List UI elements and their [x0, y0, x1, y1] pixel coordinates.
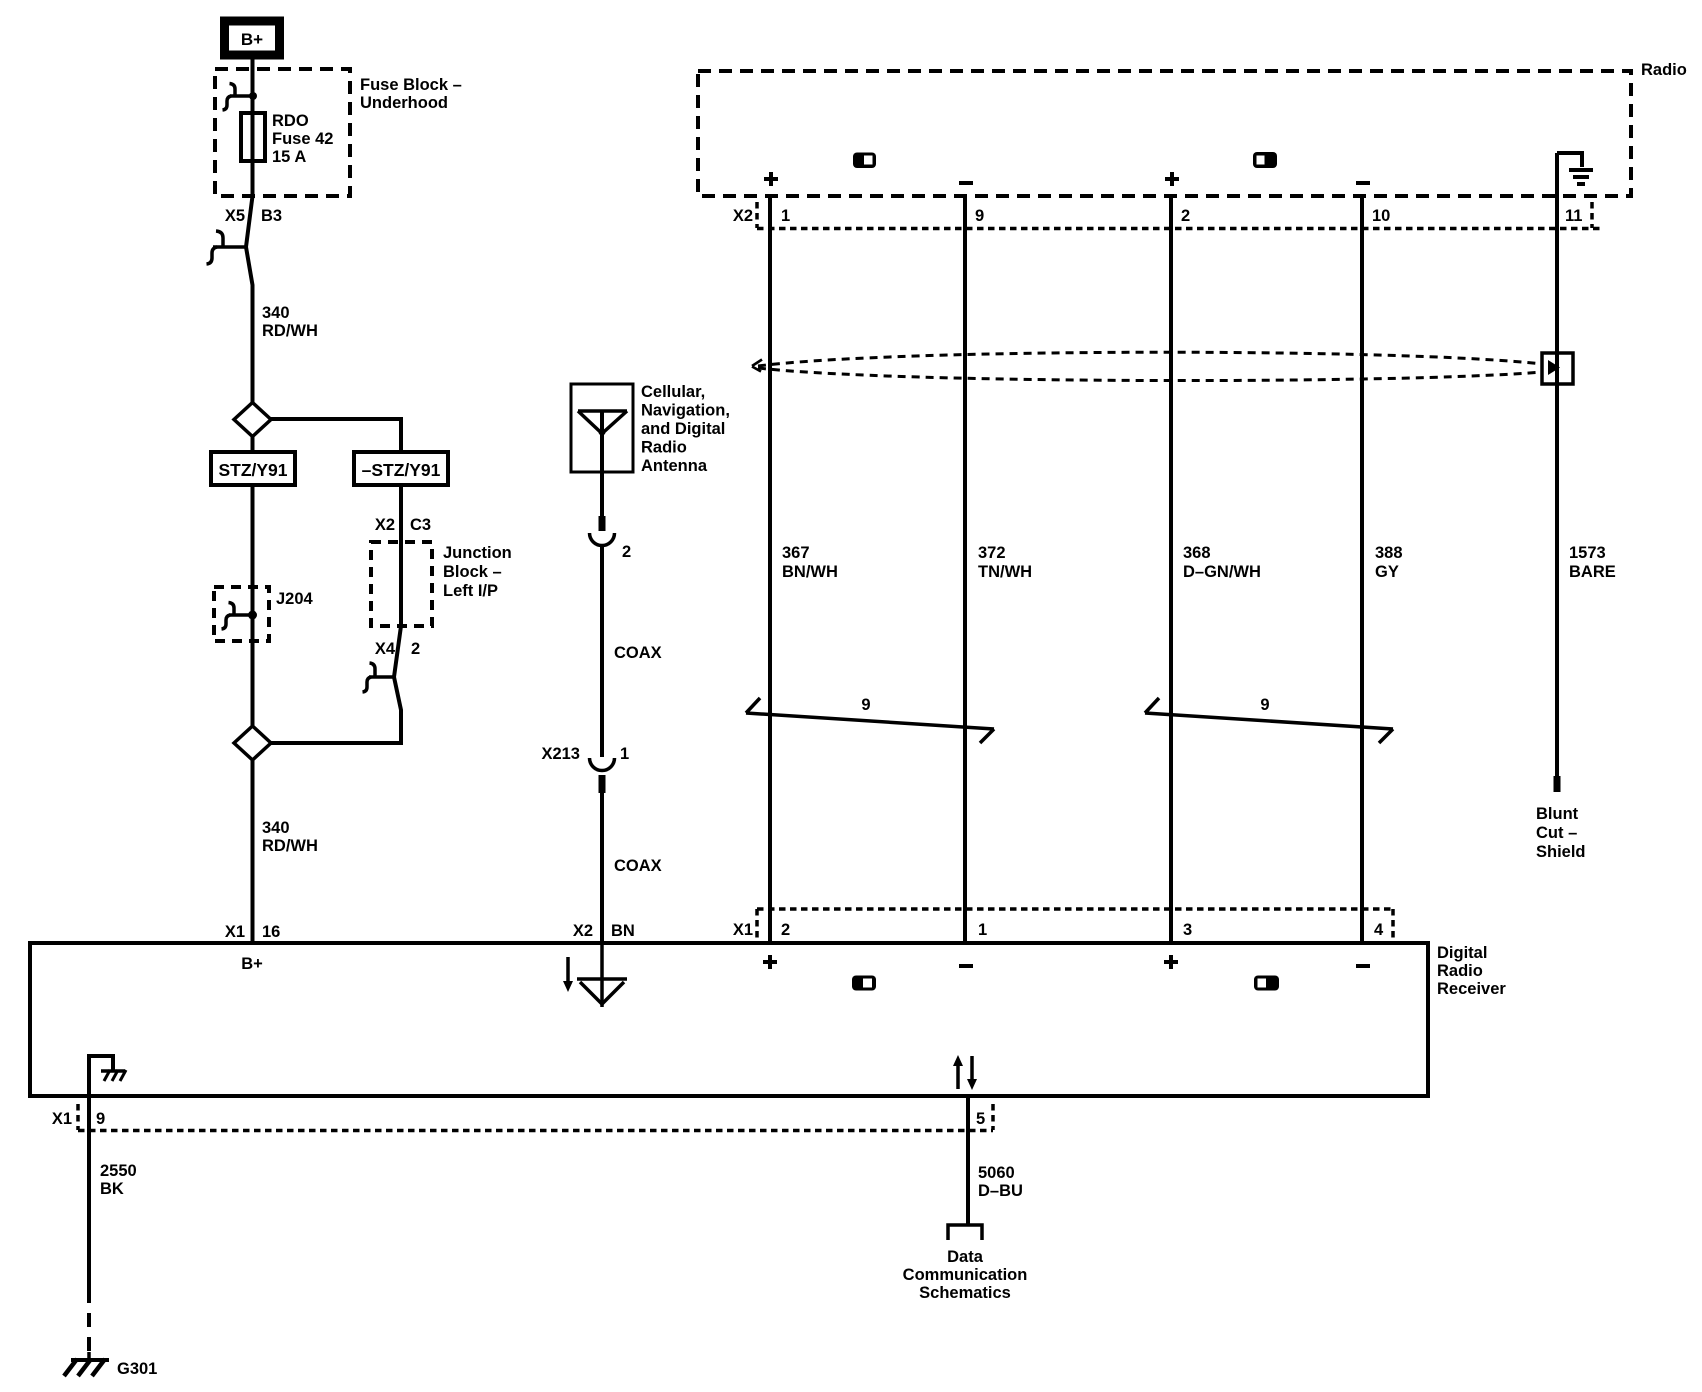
svg-text:2: 2: [781, 921, 790, 939]
svg-text:Radio: Radio: [641, 439, 687, 457]
svg-text:and Digital: and Digital: [641, 420, 725, 438]
svg-text:Blunt: Blunt: [1536, 805, 1579, 823]
svg-text:1: 1: [978, 921, 987, 939]
svg-text:G301: G301: [117, 1360, 157, 1378]
svg-text:B3: B3: [261, 207, 282, 225]
svg-text:D–GN/WH: D–GN/WH: [1183, 563, 1261, 581]
svg-text:2: 2: [1181, 207, 1190, 225]
svg-text:Shield: Shield: [1536, 843, 1586, 861]
svg-text:Block –: Block –: [443, 563, 502, 581]
svg-text:X2: X2: [733, 207, 753, 225]
svg-text:GY: GY: [1375, 563, 1399, 581]
svg-text:2550: 2550: [100, 1162, 137, 1180]
svg-text:Junction: Junction: [443, 544, 512, 562]
svg-text:BN: BN: [611, 922, 635, 940]
svg-text:10: 10: [1372, 207, 1390, 225]
svg-text:1573: 1573: [1569, 544, 1606, 562]
svg-text:Digital: Digital: [1437, 944, 1487, 962]
svg-text:D–BU: D–BU: [978, 1182, 1023, 1200]
svg-text:J204: J204: [276, 590, 314, 608]
svg-text:X5: X5: [225, 207, 245, 225]
svg-text:Left I/P: Left I/P: [443, 582, 498, 600]
svg-text:Data: Data: [947, 1248, 984, 1266]
svg-text:1: 1: [620, 745, 629, 763]
svg-text:C3: C3: [410, 516, 431, 534]
svg-text:2: 2: [622, 543, 631, 561]
svg-text:BK: BK: [100, 1180, 124, 1198]
svg-text:9: 9: [975, 207, 984, 225]
svg-text:9: 9: [861, 696, 870, 714]
svg-text:Communication: Communication: [903, 1266, 1028, 1284]
svg-text:X1: X1: [52, 1110, 72, 1128]
svg-text:11: 11: [1565, 207, 1582, 225]
svg-text:STZ/Y91: STZ/Y91: [218, 460, 287, 480]
svg-text:Fuse 42: Fuse 42: [272, 130, 333, 148]
svg-text:X2: X2: [375, 516, 395, 534]
svg-text:Receiver: Receiver: [1437, 980, 1506, 998]
svg-text:Fuse Block –: Fuse Block –: [360, 76, 462, 94]
svg-text:16: 16: [262, 923, 280, 941]
svg-text:COAX: COAX: [614, 644, 662, 662]
svg-text:B+: B+: [241, 30, 263, 49]
svg-text:Underhood: Underhood: [360, 94, 448, 112]
svg-text:340: 340: [262, 819, 290, 837]
svg-text:X4: X4: [375, 640, 396, 658]
svg-text:BN/WH: BN/WH: [782, 563, 838, 581]
svg-text:372: 372: [978, 544, 1006, 562]
svg-text:5060: 5060: [978, 1164, 1015, 1182]
svg-text:5: 5: [976, 1110, 985, 1128]
svg-text:9: 9: [96, 1110, 105, 1128]
svg-text:B+: B+: [241, 955, 263, 973]
svg-text:Radio: Radio: [1437, 962, 1483, 980]
svg-text:1: 1: [781, 207, 790, 225]
svg-text:9: 9: [1260, 696, 1269, 714]
svg-text:Schematics: Schematics: [919, 1284, 1011, 1302]
svg-text:X1: X1: [225, 923, 245, 941]
svg-text:367: 367: [782, 544, 810, 562]
svg-text:3: 3: [1183, 921, 1192, 939]
svg-text:4: 4: [1374, 921, 1384, 939]
svg-text:15 A: 15 A: [272, 148, 306, 166]
svg-text:COAX: COAX: [614, 857, 662, 875]
svg-text:Radio: Radio: [1641, 61, 1687, 79]
svg-text:Cut –: Cut –: [1536, 824, 1577, 842]
svg-text:Navigation,: Navigation,: [641, 402, 730, 420]
svg-text:388: 388: [1375, 544, 1403, 562]
svg-text:RD/WH: RD/WH: [262, 837, 318, 855]
svg-text:RD/WH: RD/WH: [262, 322, 318, 340]
svg-text:RDO: RDO: [272, 112, 309, 130]
svg-text:2: 2: [411, 640, 420, 658]
svg-text:X2: X2: [573, 922, 593, 940]
svg-text:Cellular,: Cellular,: [641, 383, 705, 401]
svg-text:X213: X213: [541, 745, 580, 763]
svg-text:X1: X1: [733, 921, 753, 939]
svg-text:368: 368: [1183, 544, 1211, 562]
svg-text:–STZ/Y91: –STZ/Y91: [362, 460, 441, 480]
svg-text:TN/WH: TN/WH: [978, 563, 1032, 581]
svg-text:340: 340: [262, 304, 290, 322]
svg-text:BARE: BARE: [1569, 563, 1616, 581]
svg-text:Antenna: Antenna: [641, 457, 708, 475]
